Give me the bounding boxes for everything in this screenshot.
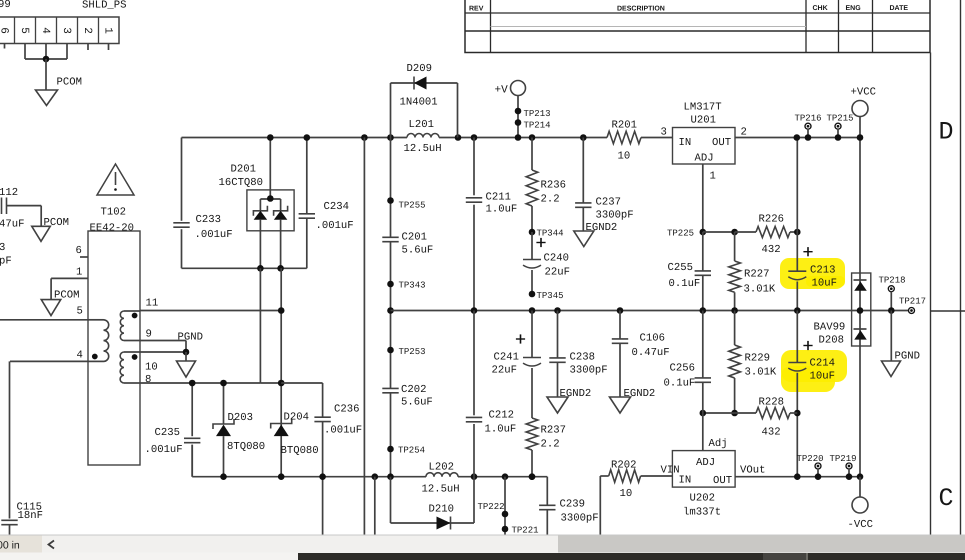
wire TP222 column — [504, 477, 506, 535]
junction top bus C234 — [304, 134, 311, 141]
svg-text:.001uF: .001uF — [195, 229, 233, 241]
junction bottom bus D204 — [278, 473, 285, 480]
svg-text:EE42-20: EE42-20 — [90, 223, 135, 235]
primary polarity dot — [92, 354, 98, 360]
svg-text:ADJ: ADJ — [696, 457, 715, 469]
svg-text:0.1uF: 0.1uF — [669, 278, 701, 290]
capacitor C238 — [557, 311, 559, 358]
svg-text:ADJ: ADJ — [695, 153, 714, 165]
testpoint TP254 — [387, 446, 394, 453]
junction mid bus TP218 — [888, 307, 895, 314]
svg-text:0.47uF: 0.47uF — [632, 347, 670, 359]
svg-text:BAV99: BAV99 — [814, 322, 846, 334]
wire pin8 net to C236 — [281, 382, 322, 384]
svg-text:D204: D204 — [284, 412, 309, 424]
junction mid bus C255 — [700, 307, 707, 314]
ground PCOM connector — [36, 90, 58, 106]
svg-text:C233: C233 — [196, 214, 221, 226]
capacitor C202 — [382, 387, 398, 389]
svg-text:C201: C201 — [402, 232, 427, 244]
primary winding — [88, 319, 104, 321]
svg-text:3: 3 — [0, 242, 5, 254]
svg-text:TP220: TP220 — [797, 454, 824, 464]
power symbol +V — [511, 81, 526, 96]
junction D201 common cathode — [267, 195, 274, 202]
svg-text:TP255: TP255 — [399, 201, 426, 211]
svg-text:TP217: TP217 — [899, 297, 926, 307]
ground PCOM pin1 — [41, 300, 61, 316]
capacitor C239 — [546, 477, 548, 506]
wire +V down — [517, 96, 519, 138]
junction bottom bus D203 — [220, 473, 227, 480]
svg-text:BTQ080: BTQ080 — [281, 445, 319, 457]
svg-text:2: 2 — [81, 27, 93, 34]
wire to PCOM — [45, 59, 47, 90]
ground PCOM under C112 — [32, 226, 51, 241]
capacitor C115 — [1, 519, 17, 521]
svg-text:Adj: Adj — [709, 438, 728, 450]
highlight over C213 — [780, 258, 845, 289]
testpoint TP345 — [529, 291, 536, 298]
svg-text:4: 4 — [77, 350, 83, 362]
svg-text:C202: C202 — [401, 384, 426, 396]
ground PGND right — [882, 361, 901, 377]
testpoint TP255 — [387, 197, 394, 204]
wire pin 11 net — [140, 310, 281, 312]
wire bottom bus — [191, 445, 193, 477]
wire mid bus — [391, 310, 912, 312]
junction pin8 net at D204 column — [278, 380, 285, 387]
svg-text:12.5uH: 12.5uH — [422, 484, 460, 496]
wire R226 to top bus — [796, 138, 798, 233]
svg-text:2.2: 2.2 — [541, 439, 560, 451]
warning triangle symbol — [97, 164, 134, 195]
testpoint TP214 — [515, 119, 522, 126]
capacitor C214 — [796, 311, 798, 363]
title block table — [465, 0, 930, 53]
svg-text:18nF: 18nF — [18, 510, 43, 522]
svg-text:TP215: TP215 — [827, 114, 854, 124]
svg-text:pF: pF — [0, 256, 12, 268]
wire to PGND ground — [185, 352, 187, 361]
resistor R226 — [735, 231, 756, 233]
power symbol +VCC — [852, 101, 868, 117]
wire stub down — [374, 477, 376, 535]
junction mid bus C106 — [617, 307, 624, 314]
svg-text:10uF: 10uF — [812, 278, 837, 290]
polarity plus C241 — [516, 338, 525, 340]
svg-text:TP222: TP222 — [478, 502, 505, 512]
regulator U202 body — [672, 451, 735, 488]
inductor L201 — [407, 134, 439, 138]
svg-text:8TQ080: 8TQ080 — [227, 441, 265, 453]
junction mid bus left end — [387, 307, 394, 314]
svg-text:TP213: TP213 — [524, 109, 551, 119]
svg-text:1N4001: 1N4001 — [400, 97, 438, 109]
junction adj2 node — [700, 410, 707, 417]
wire top bus — [182, 137, 408, 139]
svg-text:C106: C106 — [640, 333, 665, 345]
junction C213 top — [794, 229, 801, 236]
svg-text:.001uF: .001uF — [324, 425, 362, 437]
svg-text:C241: C241 — [494, 352, 519, 364]
svg-text:C256: C256 — [670, 363, 695, 375]
wire pin 1 stub — [108, 44, 110, 51]
junction pins 3-4-5 — [43, 56, 50, 63]
svg-text:TP218: TP218 — [879, 276, 906, 286]
svg-text:3: 3 — [661, 127, 667, 139]
diode D201 dual schottky body — [247, 138, 294, 231]
svg-text:3.01K: 3.01K — [744, 284, 776, 296]
svg-text:L202: L202 — [429, 462, 454, 474]
svg-text:C239: C239 — [560, 499, 585, 511]
svg-text:TP345: TP345 — [537, 291, 564, 301]
svg-text:TP214: TP214 — [524, 121, 551, 131]
svg-text:C211: C211 — [486, 192, 511, 204]
svg-text:SHLD_PS: SHLD_PS — [82, 0, 127, 12]
junction top bus +VCC — [857, 134, 864, 141]
svg-text:3.01K: 3.01K — [745, 367, 777, 379]
svg-text:C255: C255 — [668, 262, 693, 274]
junction top bus D209 right — [455, 134, 462, 141]
svg-text:11: 11 — [146, 298, 159, 310]
diode D203 — [223, 383, 225, 424]
capacitor C233 — [173, 222, 189, 224]
testpoint TP220 — [815, 463, 821, 469]
wire top bus left leg — [181, 138, 183, 221]
svg-text:D210: D210 — [429, 504, 454, 516]
connector J1 body — [0, 17, 119, 44]
testpoint TP216 — [805, 123, 811, 129]
svg-text:1.0uF: 1.0uF — [485, 424, 517, 436]
svg-text:U202: U202 — [690, 493, 715, 505]
svg-text:22uF: 22uF — [545, 267, 570, 279]
svg-text:IN: IN — [679, 475, 692, 487]
ground PGND transformer — [177, 361, 196, 377]
junction mid bus TP345 column — [529, 307, 536, 314]
svg-text:3300pF: 3300pF — [596, 210, 634, 222]
junction D203 top — [220, 380, 227, 387]
svg-text:1.0uF: 1.0uF — [486, 204, 518, 216]
svg-text:TP225: TP225 — [667, 229, 694, 239]
junction bottom bus TP222 — [502, 473, 509, 480]
diode D209 — [413, 77, 415, 90]
svg-text:+V: +V — [495, 85, 509, 97]
junction VOut -VCC — [857, 473, 864, 480]
junction bottom bus stub — [372, 473, 379, 480]
connector pin numbers 6 5 4 3 2 1 — [0, 27, 114, 34]
junction bottom bus R237 — [529, 473, 536, 480]
testpoint TP221 — [502, 526, 509, 533]
svg-text:C240: C240 — [544, 253, 569, 265]
junction VOut TP219 — [846, 473, 853, 480]
svg-text:D201: D201 — [231, 164, 256, 176]
svg-text:VOut: VOut — [740, 465, 765, 477]
svg-text:D203: D203 — [228, 412, 253, 424]
resistor R202 — [600, 475, 608, 477]
wire C201/C202 column — [390, 138, 392, 238]
junction mid bus C211 — [471, 307, 478, 314]
junction top bus R226 — [794, 134, 801, 141]
svg-text:3300pF: 3300pF — [570, 365, 608, 377]
testpoint TP343 — [387, 281, 394, 288]
svg-text:LM317T: LM317T — [684, 102, 722, 114]
capacitor C236 column — [322, 383, 324, 417]
svg-text:D209: D209 — [407, 63, 432, 75]
wire long vertical net — [363, 138, 365, 536]
svg-text:5: 5 — [18, 27, 30, 34]
inductor L202 — [426, 473, 458, 477]
wire PGND down — [890, 311, 892, 362]
svg-text:TP343: TP343 — [399, 281, 426, 291]
svg-text:ENG: ENG — [846, 5, 862, 12]
wire pin 6 stub — [80, 256, 88, 258]
testpoint TP215 — [835, 123, 841, 129]
wire U201 adj down — [702, 164, 704, 232]
junction top bus TP216 — [805, 134, 812, 141]
testpoint TP218 — [888, 286, 894, 292]
svg-text:TP344: TP344 — [537, 229, 564, 239]
wire pins 5-4-3 tie — [24, 44, 26, 60]
junction top bus long vertical — [361, 134, 368, 141]
sheet frame outer border — [960, 0, 962, 535]
svg-text:R201: R201 — [612, 120, 637, 132]
svg-text:4: 4 — [39, 27, 51, 34]
wire D210 loop — [390, 477, 392, 523]
svg-text:10: 10 — [618, 151, 631, 163]
diode D204 — [271, 419, 292, 429]
svg-text:R226: R226 — [759, 214, 784, 226]
wire D209 loop — [390, 83, 392, 138]
svg-text:TP253: TP253 — [399, 347, 426, 357]
svg-text:112: 112 — [0, 187, 18, 199]
ground EGND2 under C106 — [610, 397, 631, 413]
svg-text:D: D — [939, 118, 954, 147]
regulator U201 body — [673, 128, 736, 165]
polarity plus C213 — [803, 251, 812, 253]
resistor R237 — [531, 368, 533, 418]
svg-text:1: 1 — [76, 267, 82, 279]
capacitor C256 — [702, 311, 704, 378]
svg-text:T102: T102 — [101, 207, 126, 219]
svg-text:432: 432 — [762, 427, 781, 439]
junction R227 top — [731, 229, 738, 236]
svg-text:C214: C214 — [810, 358, 835, 370]
junction PGND center tap — [183, 349, 190, 356]
wire pin 8 net — [140, 382, 260, 384]
polarity plus C240 — [536, 242, 545, 244]
svg-text:10: 10 — [620, 488, 633, 500]
junction left anode — [257, 265, 264, 272]
capacitor C255 — [702, 232, 704, 271]
svg-text:EGND2: EGND2 — [586, 222, 618, 234]
svg-text:0.1uF: 0.1uF — [664, 378, 696, 390]
power symbol -VCC — [852, 497, 868, 513]
svg-text:C238: C238 — [570, 352, 595, 364]
svg-text:DATE: DATE — [890, 5, 909, 12]
svg-text:6: 6 — [76, 245, 82, 257]
wire U202 adj up — [702, 413, 704, 451]
svg-text:R228: R228 — [759, 397, 784, 409]
junction R228 left — [731, 410, 738, 417]
junction bottom bus C212 — [471, 473, 478, 480]
capacitor C212 column — [473, 311, 475, 416]
svg-text:PGND: PGND — [178, 332, 203, 344]
junction top bus TP215 — [835, 134, 842, 141]
wire pin 2 stub — [87, 44, 89, 51]
svg-text:TP219: TP219 — [830, 454, 857, 464]
svg-text:12.5uH: 12.5uH — [404, 143, 442, 155]
wire +VCC down to D208 — [859, 117, 861, 274]
secondary winding 10-8 — [124, 351, 140, 353]
resistor R228 — [703, 412, 735, 414]
diode D210 — [437, 517, 451, 530]
junction bottom bus C236 — [319, 473, 326, 480]
junction pin11 net — [278, 307, 285, 314]
svg-text:VIN: VIN — [661, 465, 680, 477]
junction top bus R236 — [529, 134, 536, 141]
sheet frame inner border — [930, 53, 932, 536]
secondary 11-9 polarity dot — [132, 313, 138, 319]
svg-text:8: 8 — [145, 374, 151, 386]
resistor R229 — [734, 311, 736, 346]
svg-text:L201: L201 — [409, 119, 434, 131]
junction bottom bus D210 left — [387, 473, 394, 480]
wire pin 4 — [10, 360, 88, 362]
wire pin 5 — [0, 319, 88, 321]
ground EGND2 under C237 — [574, 231, 594, 247]
junction VOut C214 — [794, 473, 801, 480]
junction mid bus C238 — [554, 307, 561, 314]
svg-text:5: 5 — [77, 306, 83, 318]
testpoint TP222 — [502, 511, 509, 518]
svg-text:.001uF: .001uF — [145, 444, 183, 456]
junction bottom bus R237 column — [529, 473, 536, 480]
svg-text:C: C — [939, 484, 954, 513]
svg-text:+VCC: +VCC — [851, 87, 876, 99]
svg-text:EGND2: EGND2 — [560, 388, 592, 400]
svg-text:C234: C234 — [324, 201, 349, 213]
wire -VCC — [859, 477, 861, 497]
testpoint TP213 — [515, 108, 522, 115]
polarity plus C214 — [803, 345, 812, 347]
wire D201 right anode — [280, 220, 282, 269]
wire D208 down — [859, 346, 861, 477]
svg-text:lm337t: lm337t — [683, 507, 721, 519]
junction top bus C211 — [471, 134, 478, 141]
wire U201 out bus — [735, 137, 860, 139]
svg-text:PCOM: PCOM — [57, 77, 82, 89]
testpoint TP217 — [909, 308, 915, 314]
svg-text:OUT: OUT — [713, 475, 732, 487]
svg-text:IN: IN — [679, 137, 692, 149]
svg-text:C237: C237 — [596, 197, 621, 209]
svg-text:C236: C236 — [334, 404, 359, 416]
svg-text:R229: R229 — [745, 353, 770, 365]
wire R202 riser — [599, 476, 601, 535]
svg-text:432: 432 — [762, 244, 781, 256]
capacitor C234 — [306, 138, 308, 214]
svg-text:10uF: 10uF — [810, 371, 835, 383]
junction mid bus C213 — [794, 307, 801, 314]
junction mid bus R227 — [731, 307, 738, 314]
capacitor C237 — [582, 138, 584, 203]
wire pin 10 to PGND node — [140, 351, 186, 353]
capacitor C201 — [382, 236, 398, 238]
wire U202 out — [735, 476, 860, 478]
wire D201 left anode — [259, 220, 261, 269]
junction R228 right — [794, 410, 801, 417]
wire D201 bottom — [182, 267, 307, 269]
svg-text:C235: C235 — [155, 427, 180, 439]
svg-text:9: 9 — [146, 329, 152, 341]
capacitor C241 — [531, 311, 533, 358]
junction top bus D201 — [267, 134, 274, 141]
zone divider tick — [931, 310, 965, 312]
wire right anode down — [280, 268, 282, 476]
svg-text:DESCRIPTION: DESCRIPTION — [617, 6, 665, 13]
svg-text:TP254: TP254 — [398, 446, 425, 456]
svg-text:16CTQ80: 16CTQ80 — [219, 177, 264, 189]
wire pin 1 to PCOM — [51, 277, 88, 279]
junction top bus C237 — [580, 134, 587, 141]
junction C235 top — [189, 380, 196, 387]
wire left anode down to pin8 net — [259, 268, 261, 383]
svg-text:C213: C213 — [810, 265, 835, 277]
svg-text:R237: R237 — [541, 425, 566, 437]
wire pin 6 stub — [4, 44, 6, 49]
secondary winding 11-9 — [124, 310, 140, 312]
svg-text:.001uF: .001uF — [316, 220, 354, 232]
svg-text:U201: U201 — [691, 115, 716, 127]
wire C112 to ground — [7, 205, 42, 207]
svg-text:00 in: 00 in — [0, 540, 20, 552]
svg-text:3300pF: 3300pF — [561, 513, 599, 525]
svg-text:PCOM: PCOM — [44, 217, 69, 229]
ground EGND2 under C238 — [547, 397, 568, 413]
resistor R201 — [607, 131, 641, 143]
svg-text:99: 99 — [0, 0, 11, 11]
svg-text:D208: D208 — [819, 335, 844, 347]
wire pin 9 to PGND node — [140, 340, 186, 342]
svg-text:C212: C212 — [489, 410, 514, 422]
capacitor C112 — [1, 198, 3, 215]
highlight over C214 — [781, 350, 847, 382]
capacitor C235 column — [191, 383, 193, 436]
junction top bus +V — [515, 134, 522, 141]
resistor R236 — [531, 138, 533, 171]
diode D208 BAV99 body — [852, 273, 871, 346]
svg-text:TP216: TP216 — [795, 114, 822, 124]
scroll left arrow — [49, 541, 55, 549]
svg-text:R236: R236 — [541, 180, 566, 192]
svg-text:OUT: OUT — [712, 137, 731, 149]
svg-text:6: 6 — [0, 27, 10, 34]
capacitor C211 column — [473, 138, 475, 196]
svg-text:-VCC: -VCC — [848, 519, 873, 531]
svg-text:2.2: 2.2 — [541, 194, 560, 206]
testpoint TP253 — [387, 347, 394, 354]
svg-text:TP221: TP221 — [512, 526, 539, 536]
svg-text:10: 10 — [145, 362, 158, 374]
svg-text:R202: R202 — [611, 460, 636, 472]
svg-text:47uF: 47uF — [0, 219, 24, 231]
svg-text:3: 3 — [60, 27, 72, 34]
testpoint TP219 — [846, 463, 852, 469]
svg-text:R227: R227 — [744, 269, 769, 281]
capacitor C106 — [619, 311, 621, 339]
svg-text:EGND2: EGND2 — [624, 388, 656, 400]
